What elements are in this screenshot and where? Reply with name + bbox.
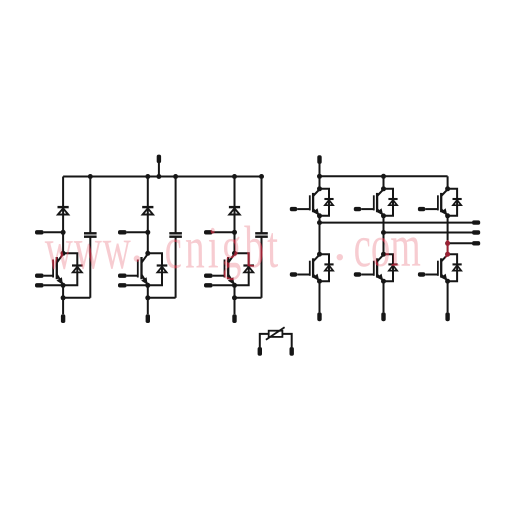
svg-text:cnigbt: cnigbt — [164, 213, 281, 280]
junction rail at phase V — [381, 174, 386, 179]
junction collector node of Q2 — [145, 251, 150, 256]
wire emitter sense of Q2 — [127, 284, 148, 286]
freewheel diode DF5 — [388, 199, 397, 205]
IGBT Q1 — [53, 254, 63, 285]
junction emitter node of Q1 — [61, 283, 66, 288]
wire phase W midpoint vertical — [447, 216, 449, 254]
node leg 1 input — [61, 230, 66, 235]
wire freewheel branch of Q6 — [448, 189, 458, 216]
freewheel diode DF8 — [388, 264, 397, 270]
wire terminal P to rail — [158, 163, 160, 177]
wire gate of Q8 — [361, 274, 374, 276]
wire freewheel branch of Q2 — [148, 253, 162, 285]
junction collector node of Q7 — [317, 252, 322, 257]
wire phase U midpoint vertical — [319, 216, 321, 254]
wire rail to phase V top collector — [383, 176, 385, 189]
junction bottom node leg 1 — [61, 295, 66, 300]
terminal N phase W — [445, 312, 449, 321]
wire emitter to bottom node leg 2 — [147, 285, 149, 298]
wire gate of Q1 — [44, 275, 54, 277]
junction bottom node leg 2 — [145, 295, 150, 300]
freewheel diode DF6 — [453, 199, 462, 205]
wire emitter sense of Q1 — [44, 284, 64, 286]
wire DC+ rail (inverter) — [320, 175, 448, 177]
wire freewheel branch of Q1 — [63, 253, 77, 285]
junction emitter node of Q2 — [145, 283, 150, 288]
terminal emitter sense of Q2 — [118, 283, 127, 287]
terminal N leg 1 — [61, 314, 65, 323]
node leg 2 input — [145, 230, 150, 235]
junction P on rail — [156, 174, 161, 179]
junction bottom node leg 3 — [232, 295, 237, 300]
svg-text:www: www — [45, 215, 132, 282]
IGBT Q5 — [374, 189, 384, 215]
wire bottom node to capacitor C3 — [235, 297, 262, 299]
wire phase V output — [384, 232, 473, 234]
wire capacitor C1 top lead — [89, 177, 91, 234]
wire gate of Q5 — [361, 208, 374, 210]
freewheel diode DF7 — [324, 264, 333, 270]
junction emitter node of Q4 — [317, 213, 322, 218]
wire phase V bottom emitter to terminal — [383, 281, 385, 312]
terminal gate of Q9 — [418, 272, 425, 276]
wire freewheel branch of Q7 — [320, 254, 330, 281]
terminal gate of Q1 — [35, 274, 44, 278]
IGBT Q6 — [438, 189, 448, 215]
junction emitter node of Q7 — [317, 279, 322, 284]
terminal P (left section DC+) — [157, 155, 161, 164]
terminal gate of Q7 — [290, 272, 297, 276]
junction rail at phase U — [317, 174, 322, 179]
wire gate of Q9 — [425, 274, 438, 276]
junction phase V output node — [381, 230, 386, 235]
wire rail to phase W top collector — [447, 176, 449, 189]
junction rail to diode D2 — [145, 174, 150, 179]
junction rail to capacitor C2 — [173, 174, 178, 179]
junction collector node of Q5 — [381, 186, 386, 191]
wire phase U bottom emitter to terminal — [319, 281, 321, 312]
terminal thermistor right — [290, 347, 294, 356]
wire bottom node to terminal leg 3 — [234, 298, 236, 314]
junction collector node of Q9 — [445, 252, 450, 257]
wire freewheel branch of Q9 — [448, 254, 458, 281]
junction rail to capacitor C1 — [88, 174, 93, 179]
terminal phase V output — [472, 230, 480, 234]
wire input terminal leg 3 — [213, 231, 235, 233]
wire phase W bottom emitter to terminal — [447, 281, 449, 312]
terminal gate of Q5 — [354, 207, 361, 211]
wire phase U output — [320, 222, 473, 224]
wire capacitor C2 top lead — [175, 177, 177, 234]
freewheel diode DF4 — [324, 199, 333, 205]
wire thermistor left lead — [260, 334, 269, 347]
wire bottom node to capacitor C2 — [148, 297, 176, 299]
terminal N leg 2 — [146, 314, 150, 323]
watermark text (background tint) — [45, 212, 421, 282]
wire leg 2 vertical (rail to collector) — [147, 177, 149, 254]
diode D2 — [142, 207, 153, 214]
wire leg 3 vertical (rail to collector) — [234, 177, 236, 254]
terminal N phase U — [317, 312, 321, 321]
terminal P (inverter DC+) — [317, 155, 321, 164]
freewheel diode DF3 — [243, 266, 254, 273]
wire freewheel branch of Q3 — [235, 253, 249, 285]
wire gate of Q6 — [425, 208, 438, 210]
wire capacitor C3 bottom lead — [261, 237, 263, 298]
wire bottom node to capacitor C1 — [63, 297, 90, 299]
wire gate of Q7 — [297, 274, 310, 276]
wire gate of Q2 — [127, 275, 138, 277]
terminal N phase V — [381, 312, 385, 321]
wire freewheel branch of Q8 — [384, 254, 394, 281]
terminal phase W output — [472, 241, 480, 245]
junction collector node of Q1 — [61, 251, 66, 256]
terminal gate of Q2 — [118, 274, 127, 278]
svg-text:com: com — [353, 212, 421, 279]
junction rail to capacitor C3 — [259, 174, 264, 179]
junction emitter node of Q8 — [381, 279, 386, 284]
wire phase W output — [448, 242, 472, 244]
wire input terminal leg 1 — [44, 231, 64, 233]
wire freewheel branch of Q5 — [384, 189, 394, 216]
wire gate of Q3 — [213, 275, 225, 277]
diode D3 — [229, 207, 240, 214]
terminal N leg 3 — [232, 314, 236, 323]
wire leg 1 vertical (rail to collector) — [62, 177, 64, 254]
wire bottom node to terminal leg 2 — [147, 298, 149, 314]
junction emitter node of Q9 — [445, 279, 450, 284]
IGBT Q7 — [310, 255, 320, 281]
IGBT Q9 — [438, 255, 448, 281]
terminal emitter sense of Q1 — [35, 283, 44, 287]
terminal input leg 1 — [35, 230, 44, 234]
wire capacitor C1 bottom lead — [89, 237, 91, 298]
wire thermistor right lead — [282, 334, 291, 347]
terminal input leg 3 — [204, 230, 213, 234]
wire bottom node to terminal leg 1 — [62, 298, 64, 314]
terminal gate of Q6 — [418, 207, 425, 211]
junction phase U output node — [317, 220, 322, 225]
capacitor C3 — [255, 233, 268, 236]
wire gate of Q4 — [297, 208, 310, 210]
wire capacitor C2 bottom lead — [175, 237, 177, 298]
wire DC+ rail (left section) — [63, 176, 261, 178]
wire input terminal leg 2 — [127, 231, 148, 233]
capacitor C2 — [169, 233, 182, 236]
junction collector node of Q8 — [381, 252, 386, 257]
IGBT Q4 — [310, 189, 320, 215]
thermistor RT1 — [266, 327, 285, 340]
wire capacitor C3 top lead — [261, 177, 263, 234]
junction collector node of Q6 — [445, 186, 450, 191]
wire emitter to bottom node leg 1 — [62, 285, 64, 298]
IGBT Q3 — [225, 254, 235, 285]
wire phase V midpoint vertical — [383, 216, 385, 254]
terminal gate of Q3 — [204, 274, 213, 278]
diode D1 — [58, 207, 69, 214]
junction emitter node of Q3 — [232, 283, 237, 288]
wire emitter sense of Q3 — [213, 284, 235, 286]
freewheel diode DF2 — [157, 266, 168, 273]
IGBT Q8 — [374, 255, 384, 281]
terminal thermistor left — [258, 347, 262, 356]
junction phase W output node — [445, 241, 450, 246]
freewheel diode DF1 — [72, 266, 83, 273]
wire freewheel branch of Q4 — [320, 189, 330, 216]
junction collector node of Q3 — [232, 251, 237, 256]
terminal gate of Q4 — [290, 207, 297, 211]
junction emitter node of Q5 — [381, 213, 386, 218]
junction rail to diode D3 — [232, 174, 237, 179]
wire terminal P to phase U collector — [319, 163, 321, 189]
IGBT Q2 — [138, 254, 148, 285]
wire emitter to bottom node leg 3 — [234, 285, 236, 298]
terminal emitter sense of Q3 — [204, 283, 213, 287]
junction emitter node of Q6 — [445, 213, 450, 218]
terminal phase U output — [472, 220, 480, 224]
junction collector node of Q4 — [317, 186, 322, 191]
node leg 3 input — [232, 230, 237, 235]
capacitor C1 — [84, 233, 97, 236]
freewheel diode DF9 — [453, 264, 462, 270]
terminal input leg 2 — [118, 230, 127, 234]
terminal gate of Q8 — [354, 272, 361, 276]
